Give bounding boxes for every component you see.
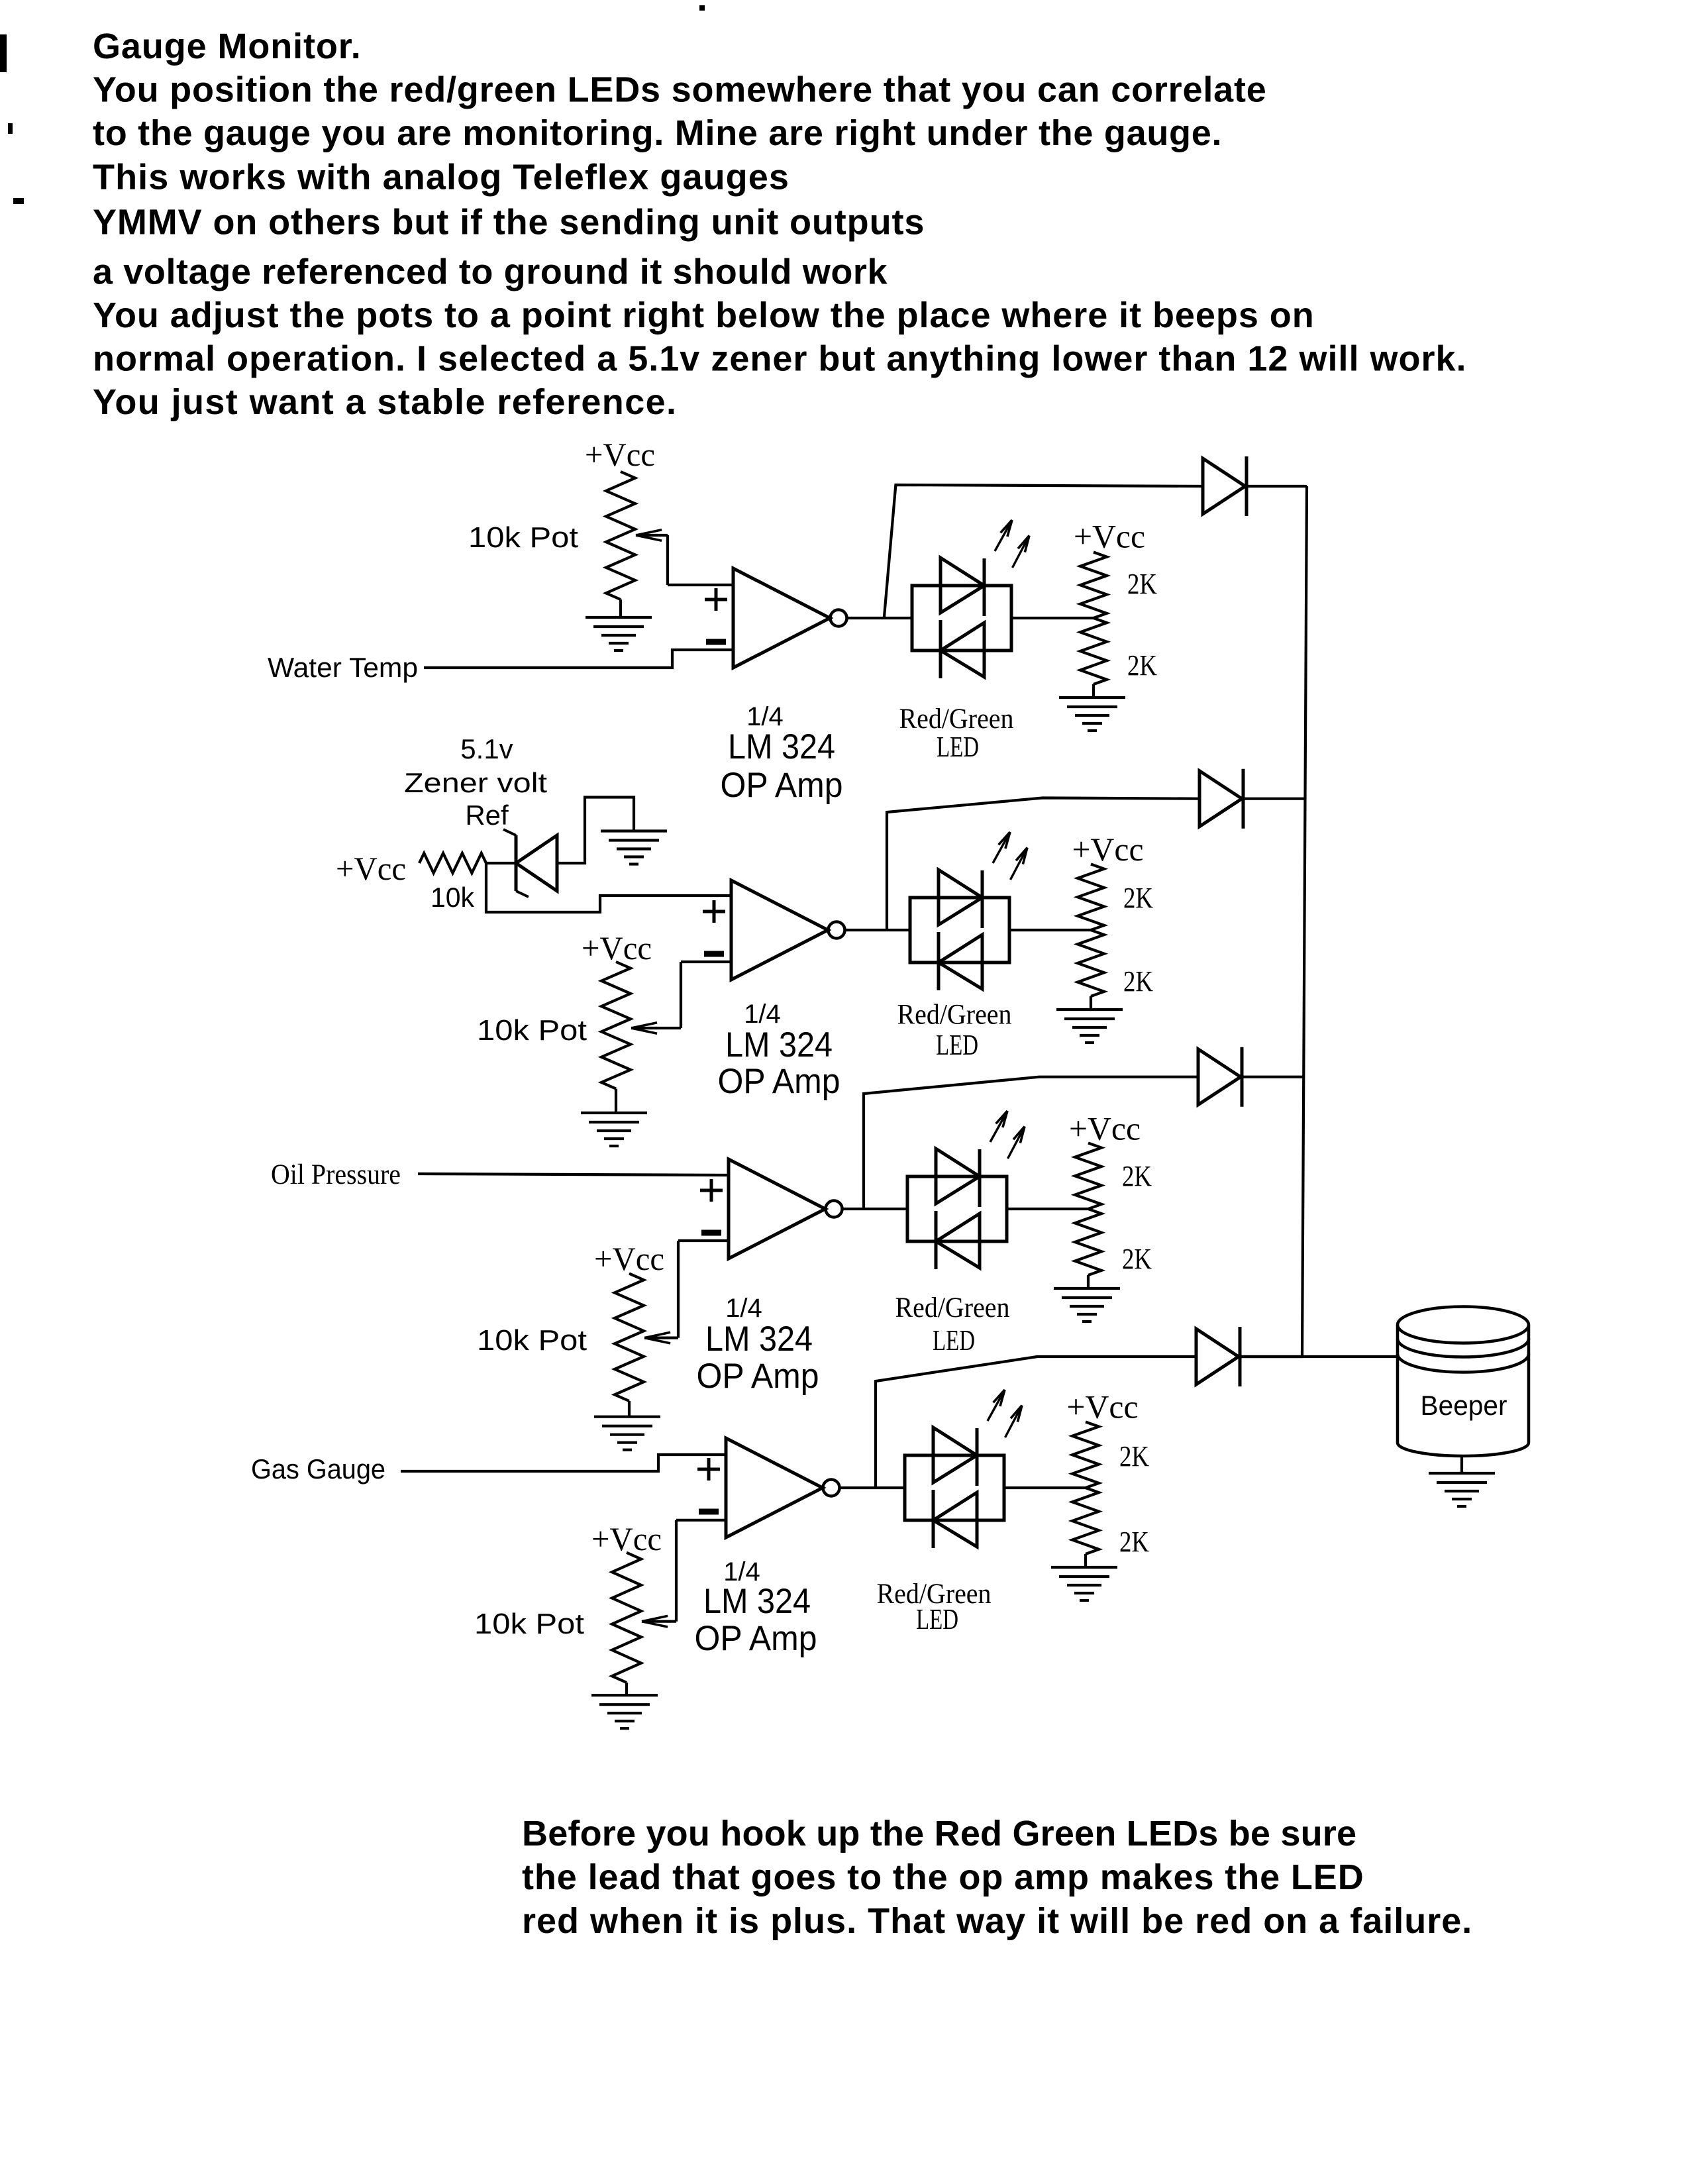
- svg-text:2K: 2K: [1127, 649, 1157, 682]
- svg-text:+Vcc: +Vcc: [336, 850, 406, 887]
- wire resistor R4b to ground: [1084, 1554, 1087, 1567]
- wire diode D2 to right bus: [1243, 798, 1305, 800]
- wire pot 1 bottom to ground: [619, 599, 622, 617]
- label 2K for R1a: [1127, 568, 1157, 600]
- label LM 324 (op-amp 2): [725, 1025, 833, 1065]
- label Red/Green (LED 3): [895, 1292, 1010, 1324]
- red/green LED DL1 package: [912, 558, 1011, 678]
- wire pot 4 bottom to ground: [625, 1683, 628, 1695]
- red/green LED DL2 package: [910, 870, 1009, 990]
- op-amp U1a (1/4 LM324) channel 1: [705, 568, 847, 668]
- pot 1 wiper arrow and wire to op-amp input: [636, 530, 733, 585]
- label 2K for R2a: [1123, 882, 1153, 914]
- diode D3: [1198, 1047, 1242, 1107]
- wire diode D1 to right bus: [1247, 485, 1307, 488]
- label 2K for R1b: [1127, 649, 1157, 682]
- resistor R3a 2K (upper): [1075, 1143, 1101, 1210]
- resistor R3b 2K (lower): [1075, 1209, 1101, 1275]
- svg-text:a voltage referenced to ground: a voltage referenced to ground it should…: [93, 252, 888, 292]
- svg-text:1/4: 1/4: [725, 1294, 762, 1323]
- svg-text:2K: 2K: [1123, 965, 1153, 998]
- label 10k below R5: [431, 882, 475, 913]
- resistor R5 10k (zener feed): [419, 853, 486, 873]
- pot 3 wiper arrow and wire to op-amp input: [644, 1241, 729, 1343]
- wire resistor R1b to ground: [1092, 684, 1095, 698]
- svg-text:You position the red/green LED: You position the red/green LEDs somewher…: [93, 70, 1267, 110]
- ground symbol below pot 4: [591, 1695, 658, 1728]
- svg-text:+Vcc: +Vcc: [582, 929, 652, 966]
- label Zener volt: [404, 767, 547, 798]
- svg-text:10k Pot: 10k Pot: [477, 1014, 587, 1047]
- ground symbol below pot 2: [581, 1113, 647, 1146]
- svg-text:+Vcc: +Vcc: [585, 436, 655, 473]
- wire resistor R2b to ground: [1090, 996, 1092, 1010]
- LED DL1 light emission arrows: [995, 520, 1029, 568]
- svg-text:Ref: Ref: [465, 800, 509, 831]
- op-amp U1d (1/4 LM324) channel 4: [697, 1438, 840, 1537]
- svg-text:Zener volt: Zener volt: [404, 767, 547, 798]
- label +Vcc above pot 1: [585, 436, 655, 473]
- wire op-amp 1 output to LED block: [847, 617, 912, 619]
- LED DL4 light emission arrows: [988, 1390, 1022, 1437]
- svg-text:2K: 2K: [1119, 1526, 1149, 1558]
- resistor R2a 2K (upper): [1078, 864, 1104, 931]
- svg-text:+Vcc: +Vcc: [1074, 518, 1145, 555]
- wire LED block 1 to resistor junction: [1011, 617, 1094, 619]
- wire pot 3 bottom to ground: [628, 1401, 631, 1417]
- svg-text:OP Amp: OP Amp: [697, 1357, 819, 1396]
- label +Vcc (zener supply): [336, 850, 406, 887]
- label LM 324 (op-amp 1): [728, 727, 835, 766]
- red/green LED DL3 package: [907, 1149, 1007, 1269]
- label 1/4 (op-amp 3): [725, 1294, 762, 1323]
- wire Water Temp to op-amp 1 inverting input: [424, 650, 733, 668]
- wire diode D3 to right bus: [1242, 1076, 1303, 1078]
- label OP Amp (op-amp 4): [695, 1619, 817, 1658]
- wire op-amp 4 output to LED block: [840, 1486, 905, 1489]
- label LED (LED 1): [937, 731, 979, 763]
- ground symbol below R1b: [1059, 698, 1125, 731]
- wire right bus (diode outputs to beeper): [1302, 486, 1307, 1357]
- svg-text:Oil Pressure: Oil Pressure: [271, 1159, 401, 1190]
- svg-text:Red/Green: Red/Green: [895, 1292, 1010, 1324]
- label LM 324 (op-amp 3): [705, 1320, 813, 1359]
- label 1/4 (op-amp 2): [744, 1000, 781, 1029]
- label 5.1v: [460, 733, 513, 764]
- ground symbol below R3b: [1054, 1288, 1120, 1322]
- svg-text:Gauge Monitor.: Gauge Monitor.: [93, 26, 362, 66]
- svg-text:Red/Green: Red/Green: [897, 1000, 1012, 1031]
- svg-text:YMMV on others but if the send: YMMV on others but if the sending unit o…: [93, 203, 925, 242]
- ground symbol below R4b: [1051, 1567, 1117, 1600]
- svg-text:LED: LED: [936, 1029, 978, 1061]
- svg-text:Before you hook up the Red Gre: Before you hook up the Red Green LEDs be…: [522, 1814, 1356, 1853]
- wire beeper to ground: [1460, 1455, 1463, 1473]
- resistor R1b 2K (lower): [1080, 618, 1107, 684]
- label +Vcc above pot 4: [591, 1520, 662, 1557]
- svg-text:2K: 2K: [1127, 568, 1157, 600]
- ground symbol below R2b: [1056, 1010, 1123, 1043]
- wire diode D4 output to beeper: [1240, 1355, 1398, 1358]
- ground symbol for zener: [601, 831, 667, 864]
- label +Vcc above R4a: [1067, 1388, 1139, 1425]
- svg-text:2K: 2K: [1119, 1440, 1149, 1473]
- svg-text:OP Amp: OP Amp: [718, 1062, 840, 1101]
- wire branch op-amp 2 output up to diode D2: [887, 798, 1199, 931]
- svg-text:10k Pot: 10k Pot: [477, 1324, 587, 1357]
- label Beeper: [1421, 1390, 1507, 1421]
- scan artifact marks: [0, 5, 705, 204]
- label 1/4 (op-amp 1): [746, 702, 784, 731]
- ground symbol below pot 3: [594, 1417, 660, 1450]
- label OP Amp (op-amp 3): [697, 1357, 819, 1396]
- svg-text:Gas Gauge: Gas Gauge: [251, 1453, 385, 1484]
- wire branch op-amp 1 output up to diode D1: [884, 485, 1203, 618]
- label Red/Green (LED 4): [877, 1579, 992, 1610]
- diode D4: [1196, 1327, 1240, 1386]
- label 1/4 (op-amp 4): [723, 1557, 760, 1586]
- label Red/Green (LED 1): [899, 703, 1014, 735]
- label 2K for R3a: [1122, 1160, 1152, 1192]
- svg-text:5.1v: 5.1v: [460, 733, 513, 764]
- title and description text block: [93, 26, 1467, 422]
- svg-text:2K: 2K: [1122, 1243, 1152, 1275]
- label 2K for R4b: [1119, 1526, 1149, 1558]
- zener diode Z1 5.1v: [503, 829, 557, 897]
- beeper BZ1 (cylinder): [1398, 1307, 1529, 1457]
- svg-text:LED: LED: [916, 1603, 958, 1636]
- wire branch op-amp 4 output up to diode D4: [876, 1357, 1196, 1488]
- node label Oil Pressure: [271, 1159, 401, 1190]
- svg-text:LM 324: LM 324: [725, 1025, 833, 1065]
- label 10k Pot (1): [468, 521, 578, 554]
- svg-text:Red/Green: Red/Green: [899, 703, 1014, 735]
- wire branch op-amp 3 output up to diode D3: [864, 1077, 1198, 1209]
- svg-text:You adjust the pots to a point: You adjust the pots to a point right bel…: [93, 295, 1315, 335]
- label Ref: [465, 800, 509, 831]
- svg-text:2K: 2K: [1122, 1160, 1152, 1192]
- wire op-amp 3 output to LED block: [842, 1208, 907, 1210]
- svg-text:LED: LED: [937, 731, 979, 763]
- svg-text:+Vcc: +Vcc: [594, 1240, 664, 1277]
- label LED (LED 3): [933, 1324, 975, 1357]
- diode D2: [1199, 769, 1243, 829]
- potentiometer R4p 10k Pot body: [612, 1553, 641, 1683]
- potentiometer R1p 10k Pot body: [606, 472, 635, 599]
- pot 4 wiper arrow and wire to op-amp input: [642, 1520, 726, 1627]
- label 10k Pot (2): [477, 1014, 587, 1047]
- wire LED block 3 to resistor junction: [1007, 1208, 1088, 1210]
- svg-text:red when it is plus. That way: red when it is plus. That way it will be…: [522, 1901, 1472, 1941]
- svg-text:Beeper: Beeper: [1421, 1390, 1507, 1421]
- op-amp U1c (1/4 LM324) channel 3: [700, 1159, 842, 1259]
- wire Oil Pressure to op-amp 3 non-inverting input: [418, 1174, 729, 1175]
- label 10k Pot (3): [477, 1324, 587, 1357]
- resistor R2b 2K (lower): [1078, 930, 1104, 996]
- wire R5 to zener cathode: [486, 862, 516, 864]
- svg-text:OP Amp: OP Amp: [721, 766, 843, 805]
- svg-text:10k Pot: 10k Pot: [474, 1608, 584, 1640]
- svg-text:LED: LED: [933, 1324, 975, 1357]
- svg-text:Water Temp: Water Temp: [268, 652, 418, 683]
- wire diode D4 to right bus: [1240, 1355, 1302, 1358]
- label LED (LED 4): [916, 1603, 958, 1636]
- wire zener reference to op-amp 2 non-inverting input: [486, 863, 731, 912]
- svg-text:LM 324: LM 324: [703, 1582, 811, 1621]
- ground symbol below pot 1: [586, 617, 652, 650]
- svg-text:+Vcc: +Vcc: [591, 1520, 662, 1557]
- label Red/Green (LED 2): [897, 1000, 1012, 1031]
- wire pot 2 bottom to ground: [615, 1089, 617, 1113]
- label 10k Pot (4): [474, 1608, 584, 1640]
- red/green LED DL4 package: [905, 1428, 1004, 1548]
- svg-text:normal operation. I selected a: normal operation. I selected a 5.1v zene…: [93, 339, 1467, 379]
- potentiometer R3p 10k Pot body: [615, 1274, 644, 1401]
- label LED (LED 2): [936, 1029, 978, 1061]
- wire LED block 4 to resistor junction: [1004, 1486, 1086, 1489]
- svg-text:+Vcc: +Vcc: [1072, 831, 1144, 868]
- diode D1: [1203, 456, 1247, 516]
- label +Vcc above pot 2: [582, 929, 652, 966]
- label 2K for R4a: [1119, 1440, 1149, 1473]
- svg-text:1/4: 1/4: [744, 1000, 781, 1029]
- label LM 324 (op-amp 4): [703, 1582, 811, 1621]
- svg-text:to the gauge you are monitorin: to the gauge you are monitoring. Mine ar…: [93, 113, 1222, 153]
- svg-text:OP Amp: OP Amp: [695, 1619, 817, 1658]
- resistor R4b 2K (lower): [1072, 1488, 1099, 1554]
- svg-text:LM 324: LM 324: [728, 727, 835, 766]
- wire zener anode to ground: [557, 798, 634, 864]
- LED DL2 light emission arrows: [993, 832, 1027, 880]
- label +Vcc above R2a: [1072, 831, 1144, 868]
- label +Vcc above R3a: [1069, 1110, 1141, 1147]
- resistor R1a 2K (upper): [1080, 552, 1107, 619]
- svg-text:2K: 2K: [1123, 882, 1153, 914]
- label +Vcc above R1a: [1074, 518, 1145, 555]
- potentiometer R2p 10k Pot body: [601, 962, 631, 1089]
- svg-text:+Vcc: +Vcc: [1069, 1110, 1141, 1147]
- svg-text:the lead that goes to the op a: the lead that goes to the op amp makes t…: [522, 1857, 1364, 1897]
- resistor R4a 2K (upper): [1072, 1422, 1099, 1488]
- wire LED block 2 to resistor junction: [1009, 929, 1091, 931]
- svg-text:10k: 10k: [431, 882, 475, 913]
- svg-text:This works with analog Telefle: This works with analog Teleflex gauges: [93, 158, 790, 197]
- pot 2 wiper arrow and wire to op-amp input: [631, 962, 731, 1033]
- svg-text:10k Pot: 10k Pot: [468, 521, 578, 554]
- svg-text:You just want a stable referen: You just want a stable reference.: [93, 382, 677, 422]
- node label Water Temp: [268, 652, 418, 683]
- label 2K for R2b: [1123, 965, 1153, 998]
- ground symbol below beeper: [1429, 1473, 1495, 1506]
- label 2K for R3b: [1122, 1243, 1152, 1275]
- wire op-amp 2 output to LED block: [845, 929, 910, 931]
- svg-text:+Vcc: +Vcc: [1067, 1388, 1139, 1425]
- label OP Amp (op-amp 2): [718, 1062, 840, 1101]
- label +Vcc above pot 3: [594, 1240, 664, 1277]
- wire resistor R3b to ground: [1087, 1275, 1090, 1288]
- bottom note text block: [522, 1814, 1472, 1941]
- LED DL3 light emission arrows: [990, 1111, 1025, 1159]
- node label Gas Gauge: [251, 1453, 385, 1484]
- svg-text:LM 324: LM 324: [705, 1320, 813, 1359]
- label OP Amp (op-amp 1): [721, 766, 843, 805]
- op-amp U1b (1/4 LM324) channel 2: [703, 880, 845, 980]
- wire Gas Gauge to op-amp 4 non-inverting input: [401, 1455, 726, 1471]
